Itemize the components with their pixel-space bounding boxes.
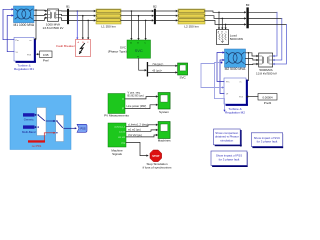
wire L1 to B2 phase C [121, 19, 154, 21]
wire m feedback M1 down to turbine [34, 10, 36, 40]
svg-text:no PSS: no PSS [32, 144, 42, 148]
wire B3 to T2 phase A (right bend) [249, 12, 277, 57]
scope System [158, 93, 170, 114]
svg-text:STOP: STOP [152, 154, 159, 158]
node tap phase A to load [218, 12, 220, 30]
svg-text:Regulation M1: Regulation M1 [14, 67, 34, 71]
svg-text:w1 w2 (pu): w1 w2 (pu) [128, 128, 141, 132]
wire d_theta to machines scope [126, 122, 158, 126]
svg-text:d_theta1_2: d_theta1_2 [114, 125, 126, 128]
scope Machines [158, 122, 171, 143]
wire B1 to L1 phase C [69, 19, 96, 21]
node m feedback M2 junction [248, 52, 250, 54]
svg-text:5000 MW: 5000 MW [230, 37, 243, 41]
wire M1 phase A to transformer T1 [34, 10, 47, 12]
svg-text:Pm: Pm [226, 82, 229, 84]
wire M2 phase B to T2 [246, 59, 259, 62]
svg-text:PSS: PSS [80, 128, 85, 131]
goto tag Multi-Band PSS [22, 125, 36, 133]
svg-text:0.95: 0.95 [43, 53, 49, 57]
svg-text:B1: B1 [66, 5, 70, 9]
svg-text:Fault Breaker: Fault Breaker [56, 44, 75, 48]
svg-text:M1 1000 MVA: M1 1000 MVA [13, 23, 34, 27]
wire M2 phase C to T2 [246, 63, 259, 65]
svg-text:Signals: Signals [112, 152, 122, 156]
node tap phase B to fault breaker [82, 15, 84, 40]
SVC block (phasor type) [108, 40, 151, 58]
svg-text:System: System [159, 110, 170, 114]
svg-text:SVC: SVC [180, 75, 187, 79]
svg-text:M2 5000 MVA: M2 5000 MVA [225, 67, 246, 71]
svg-text:Pref: Pref [27, 54, 31, 57]
wire turbine M1 Pm loop to machine M1 [3, 8, 14, 40]
manual switch PSS on-off [56, 115, 64, 142]
wire Pref1 to turbine M1 [36, 53, 40, 55]
svg-text:simulation: simulation [220, 138, 233, 142]
svg-text:B3: B3 [246, 3, 250, 7]
wire switch 2 to PSS goto tag [64, 127, 77, 129]
svg-text:Multi-Band: Multi-Band [22, 130, 36, 134]
svg-text:Machines: Machines [158, 138, 171, 142]
svg-text:if loss of synchronism: if loss of synchronism [143, 166, 172, 170]
node tap phase B to SVC [137, 15, 139, 40]
node tap phase A to SVC [130, 10, 132, 40]
svg-text:m: m [137, 56, 139, 58]
svg-text:0.00004: 0.00004 [262, 95, 273, 99]
wire B1 to L1 phase A [69, 10, 96, 12]
machine M1 [13, 6, 34, 27]
svg-text:Pref: Pref [239, 96, 243, 99]
svg-text:for 3 phase fault: for 3 phase fault [257, 140, 278, 144]
svg-text:Regulation M2: Regulation M2 [225, 111, 245, 115]
svg-text:PV Measurements: PV Measurements [104, 114, 129, 118]
scope SVC [178, 63, 188, 79]
svg-text:Pref: Pref [43, 59, 49, 63]
svg-text:L1 350 km: L1 350 km [101, 24, 116, 28]
wire B2 to L2 phase B [156, 15, 178, 17]
wire PV P to system scope [125, 104, 158, 109]
bus B1 [66, 5, 70, 25]
wire L1 to B2 phase B [121, 15, 154, 17]
stop simulation block [143, 150, 172, 170]
wire SVC m output to demux [139, 58, 147, 71]
transformer T2 5000 MVA [256, 53, 278, 75]
transformer T1 1000 MVA [43, 9, 65, 30]
node m feedback M1 junction [35, 9, 37, 11]
svg-text:L2 350 km: L2 350 km [184, 24, 199, 28]
svg-text:w1 w2: w1 w2 [119, 131, 126, 133]
wire L1 to B2 phase A [121, 10, 154, 12]
wire demux Va to SVC scope [148, 62, 178, 67]
fault breaker block [56, 40, 90, 57]
svg-text:Line power (MW): Line power (MW) [127, 104, 147, 108]
wire turbine M1 Vf loop to machine M1 [7, 14, 14, 51]
svg-text:for 3 phase fault: for 3 phase fault [219, 158, 240, 162]
svg-text:Pref2: Pref2 [264, 101, 272, 105]
bus B3 [246, 3, 250, 28]
machine M2 [225, 49, 247, 71]
svg-text:Pm: Pm [16, 40, 19, 42]
constant no PSS [28, 140, 45, 148]
wire T1 to bus B1 phase B [59, 14, 67, 15]
PV measurements block [104, 94, 129, 118]
node tap phase A to fault breaker (blue wire) [76, 10, 78, 39]
wire M1 phase C to transformer T1 [34, 17, 47, 21]
wire T1 to bus B1 phase A [59, 10, 67, 12]
wire L2 to B3 phase B [205, 16, 246, 20]
wire turbine M2 Vf loop to machine [220, 59, 225, 94]
svg-text:Vt1 Vt2 (pu): Vt1 Vt2 (pu) [128, 133, 142, 137]
svg-text:<Va (pu)>: <Va (pu)> [152, 62, 164, 66]
svg-text:13.8 kV/500 kV: 13.8 kV/500 kV [256, 71, 278, 75]
wire PSS vstab to turbine M2 (lavender loop B) [201, 64, 224, 89]
constant Pref2 [258, 94, 277, 106]
wire B3 to T2 phase C (right bend) [249, 24, 287, 65]
wire M1 phase B to transformer T1 [34, 13, 47, 15]
svg-text:d_theta1_2 (deg): d_theta1_2 (deg) [128, 122, 148, 126]
svg-text:Generic: Generic [24, 118, 34, 122]
node tap phase B to load [221, 18, 223, 30]
wire T1 to bus B1 phase C [59, 18, 67, 21]
wire switch to switch 2 [46, 120, 56, 122]
PSS selection panel [10, 96, 71, 150]
svg-text:SVC: SVC [135, 48, 143, 53]
button show impact of SVC [251, 133, 283, 148]
svg-text:m: m [30, 40, 32, 42]
button show impact of PSS [211, 151, 248, 167]
wire B2 to L2 phase A [156, 10, 178, 12]
svg-text:(Phasor Type): (Phasor Type) [108, 49, 127, 53]
goto tag Generic PSS [23, 113, 35, 121]
wire Vt1 Vt2 to machines scope [126, 133, 158, 137]
constant Pref1 [40, 51, 53, 63]
svg-text:13.8 kV/500 kV: 13.8 kV/500 kV [43, 26, 65, 30]
wire PV V to system scope [125, 90, 158, 99]
wire B2 to L2 phase C [156, 19, 178, 21]
node tap phase C to SVC [145, 20, 147, 40]
svg-text:m: m [240, 82, 242, 84]
wire Multi-Band to switch [35, 126, 38, 128]
wire turbine M2 Pm loop to machine [217, 51, 225, 81]
wire PSS vstab to machine M2 (lavender loop A) [215, 62, 226, 112]
manual switch PSS type [37, 108, 46, 136]
turbine and regulation M1 block [14, 38, 36, 72]
wire L2 to B3 phase C [205, 20, 246, 25]
svg-text:B2: B2 [153, 4, 157, 8]
machine signals block [108, 123, 126, 156]
button show comparison with phasor simulation [214, 129, 242, 147]
svg-text:Vt1 Vt2: Vt1 Vt2 [118, 136, 126, 139]
wire demux B to SVC scope [148, 69, 178, 74]
wire m feedback M2 down to turbine [245, 53, 248, 82]
wire M2 phase A to T2 [246, 53, 259, 57]
wire B1 to L1 phase B [69, 15, 96, 17]
node tap phase C to fault breaker [87, 20, 89, 40]
node tap phase C to load [225, 24, 227, 30]
wire w1 w2 to machines scope [126, 128, 158, 132]
turbine and regulation M2 block [224, 78, 248, 115]
svg-text:B1 B2 B3 (pu): B1 B2 B3 (pu) [128, 94, 144, 98]
demux for SVC signals [147, 62, 148, 77]
line block L2 350 km [178, 9, 205, 28]
wire L2 to B3 phase A [205, 11, 246, 14]
load block 5000 MW [217, 30, 244, 45]
wire Generic to switch [35, 114, 38, 116]
bus B2 [153, 4, 157, 24]
svg-text:<B (pu)>: <B (pu)> [152, 69, 163, 73]
wire B3 to T2 phase B (right bend) [249, 18, 282, 61]
goto tag PSS output [77, 124, 87, 132]
wire Pref2 to turbine M2 [246, 95, 258, 97]
wire stop signal to stop block [126, 142, 149, 156]
wire no PSS to switch 2 (red) [44, 132, 55, 141]
line block L1 350 km [96, 9, 121, 28]
